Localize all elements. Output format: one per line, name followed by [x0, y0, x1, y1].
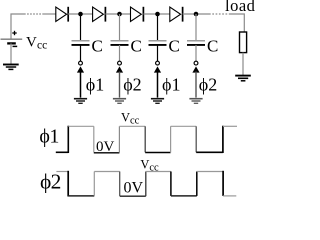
wire: C3 bottom to clock terminal 3	[157, 45, 159, 61]
terminal circle (clock 3)	[156, 61, 160, 65]
svg-text:V: V	[140, 158, 149, 172]
svg-text:0V: 0V	[124, 180, 144, 197]
capacitor C3	[149, 41, 167, 45]
net label load	[225, 0, 256, 15]
wire: C4 bottom to clock terminal 4	[195, 45, 197, 61]
wire: dashed rail segment right	[209, 13, 230, 15]
svg-text:load: load	[225, 0, 255, 15]
svg-text:ϕ2: ϕ2	[40, 169, 61, 193]
node N4 junction dot	[194, 12, 199, 17]
clock source arrow phi2 (column 4)	[192, 66, 199, 97]
value label C (C3)	[169, 37, 180, 56]
wire: battery positive to top rail corner	[11, 14, 24, 39]
svg-text:ϕ1: ϕ1	[86, 75, 104, 95]
clock source arrow phi1 (column 1)	[77, 66, 84, 97]
wire: rail to diode D1 anode	[43, 13, 56, 15]
wire: C1 bottom to clock terminal 1	[80, 45, 82, 61]
wire: node N2 down to capacitor C2	[119, 14, 121, 40]
svg-text:ϕ1: ϕ1	[162, 75, 180, 95]
battery V1: long positive plate	[1, 38, 23, 40]
capacitor C2	[111, 41, 129, 45]
clock source arrow phi1 (column 3)	[154, 66, 161, 97]
waveform label phi1	[39, 126, 59, 148]
clock source arrow phi2 (column 2)	[116, 66, 123, 97]
node N3 junction dot	[155, 12, 160, 17]
svg-text:ϕ2: ϕ2	[199, 75, 217, 95]
wire: node N4 down to capacitor C4	[195, 14, 197, 40]
svg-text:ϕ2: ϕ2	[123, 75, 141, 95]
svg-text:cc: cc	[130, 116, 140, 127]
net label phi1 (column 3)	[162, 75, 180, 95]
value label C (C4)	[207, 37, 218, 56]
terminal circle (clock 4)	[194, 61, 198, 65]
svg-text:C: C	[169, 37, 180, 56]
value label C (C2)	[131, 37, 142, 56]
wire: node N3 down to capacitor C3	[157, 14, 159, 40]
diode D4	[170, 7, 183, 22]
wire: D1 cathode to node N1	[68, 13, 92, 15]
wire: C2 bottom to clock terminal 2	[119, 45, 121, 61]
ground (clock 3)	[151, 99, 164, 104]
diode D1	[56, 7, 68, 22]
wire: resistor to ground	[242, 53, 244, 75]
value label C (C1)	[92, 37, 103, 56]
wire: D2 cathode to node N2	[105, 13, 130, 15]
net label phi2 (column 4)	[199, 75, 217, 95]
wire: D4 cathode to node N4	[183, 13, 209, 15]
battery V1: minus sign	[13, 45, 18, 47]
value label Vcc (battery)	[26, 34, 47, 51]
level label Vcc (phi2)	[140, 158, 159, 174]
level label 0V (phi1)	[96, 139, 115, 155]
waveform label phi2	[40, 169, 61, 193]
svg-text:C: C	[92, 37, 103, 56]
waveform phi2 trace	[56, 171, 236, 197]
svg-text:C: C	[207, 37, 218, 56]
diode D2	[93, 7, 106, 22]
node N1 junction dot	[78, 12, 83, 17]
svg-text:V: V	[121, 111, 130, 125]
capacitor C4	[187, 41, 205, 45]
wire: D3 cathode to node N3	[143, 13, 169, 15]
terminal circle (clock 1)	[79, 61, 83, 65]
wire: rail to load resistor	[230, 14, 245, 32]
terminal circle (clock 2)	[118, 61, 122, 65]
net label phi1 (column 1)	[86, 75, 104, 95]
waveform phi1 trace	[56, 126, 237, 153]
resistor RL (load)	[240, 32, 247, 53]
level label Vcc (phi1)	[121, 111, 140, 127]
node N2 junction dot	[117, 12, 122, 17]
svg-text:ϕ1: ϕ1	[39, 126, 59, 148]
diode D3	[131, 7, 144, 22]
svg-text:cc: cc	[149, 163, 159, 174]
svg-text:cc: cc	[37, 40, 47, 52]
wire: node N1 down to capacitor C1	[80, 14, 82, 40]
ground (battery)	[3, 65, 19, 70]
battery V1: short negative plate	[7, 42, 16, 44]
battery V1 Vcc: plus sign	[12, 31, 16, 35]
wire: dashed rail segment left	[24, 13, 43, 15]
ground (clock 1)	[74, 99, 87, 104]
svg-text:V: V	[26, 34, 37, 50]
net label phi2 (column 2)	[123, 75, 141, 95]
wire: battery negative to ground	[10, 43, 12, 64]
capacitor C1	[72, 41, 90, 45]
ground (clock 2)	[113, 99, 126, 104]
ground (clock 4)	[189, 99, 202, 104]
svg-text:0V: 0V	[96, 139, 115, 155]
ground (load)	[235, 76, 251, 81]
level label 0V (phi2)	[124, 180, 144, 197]
svg-text:C: C	[131, 37, 142, 56]
